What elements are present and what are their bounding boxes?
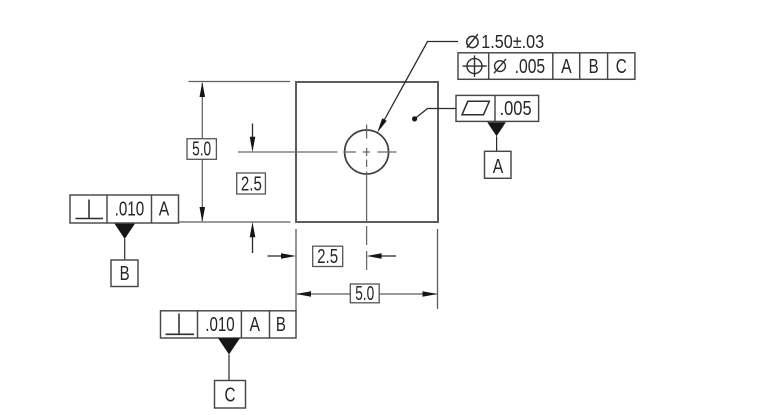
svg-text:B: B	[120, 263, 130, 285]
hole callout text ⌀1.50±.03	[467, 32, 544, 52]
dimension 2.5 vertical: text box	[237, 173, 266, 196]
svg-text:A: A	[159, 198, 170, 220]
dimension 5.0 vertical: text box	[187, 139, 216, 161]
datum A stem	[496, 136, 498, 151]
extension line below square, right edge	[437, 229, 439, 309]
dimension 5.0 horizontal: text box	[350, 283, 379, 305]
dimension 5.0 horizontal: left arrowhead	[296, 291, 311, 297]
svg-text:.005: .005	[500, 98, 532, 120]
extension line top (for vertical 5.0 dim)	[189, 81, 291, 83]
hole (circle ⌀1.50)	[345, 130, 389, 174]
svg-text:2.5: 2.5	[317, 246, 338, 268]
hole callout leader line	[380, 42, 458, 129]
dimension 2.5 horizontal: text box	[313, 246, 343, 268]
perpendicularity feature control frame (bottom) box	[161, 311, 297, 338]
hole horizontal centerline	[238, 151, 397, 153]
svg-text:A: A	[561, 56, 572, 78]
svg-text:C: C	[225, 384, 236, 406]
svg-text:.010: .010	[205, 314, 234, 336]
svg-text:B: B	[276, 314, 286, 336]
svg-text:A: A	[249, 314, 260, 336]
position symbol	[463, 55, 487, 77]
position feature control frame box	[458, 53, 635, 80]
datum C box	[215, 381, 246, 409]
datum B stem	[124, 239, 126, 260]
dimension 5.0 vertical: bottom arrowhead	[200, 207, 206, 222]
svg-text:.010: .010	[115, 198, 145, 220]
datum B box	[111, 260, 138, 287]
flatness feature control frame box	[456, 95, 539, 121]
dimension 5.0 horizontal: right arrowhead	[423, 291, 438, 297]
dimension 2.5 vertical: upper arrow (points down at centerline)	[250, 124, 256, 153]
svg-text:C: C	[616, 56, 627, 78]
datum feature symbol B: triangle	[115, 224, 136, 239]
svg-text:A: A	[493, 156, 504, 178]
svg-text:5.0: 5.0	[192, 139, 211, 161]
svg-text:2.5: 2.5	[241, 174, 262, 196]
dimension 5.0 horizontal: dimension line	[297, 293, 437, 295]
extension line bottom-left (bottom edge extended to datum B frame)	[179, 221, 291, 223]
dimension 2.5 vertical: lower arrow (points up at bottom edge)	[250, 222, 256, 253]
datum A box	[485, 151, 512, 178]
svg-text:5.0: 5.0	[355, 283, 374, 305]
datum feature symbol A: triangle	[487, 122, 506, 136]
perpendicularity symbol (left frame)	[76, 200, 104, 219]
flatness symbol (parallelogram)	[462, 101, 489, 115]
flatness leader with dot on surface	[412, 109, 456, 122]
dimension 5.0 vertical: top arrowhead	[200, 82, 206, 97]
perpendicularity symbol (bottom frame)	[166, 314, 195, 335]
dimension 2.5 horizontal: left arrow (points right at left extension line)	[268, 253, 297, 259]
dimension 5.0 vertical: dimension line	[201, 83, 203, 221]
diameter symbol in frame	[494, 59, 506, 73]
svg-text:B: B	[589, 56, 599, 78]
dimension 2.5 horizontal: right arrow (points left at hole centerline)	[367, 253, 396, 259]
svg-text:1.50±.03: 1.50±.03	[481, 32, 544, 52]
extension line below square, left edge	[295, 229, 297, 311]
hole callout leader arrowhead	[377, 118, 387, 132]
datum C stem	[228, 355, 230, 381]
part outline (square plate)	[296, 82, 438, 222]
perpendicularity feature control frame (left) box	[70, 195, 179, 223]
datum feature symbol C: triangle	[218, 338, 240, 354]
svg-text:.005: .005	[515, 56, 546, 78]
hole vertical centerline	[366, 125, 368, 271]
